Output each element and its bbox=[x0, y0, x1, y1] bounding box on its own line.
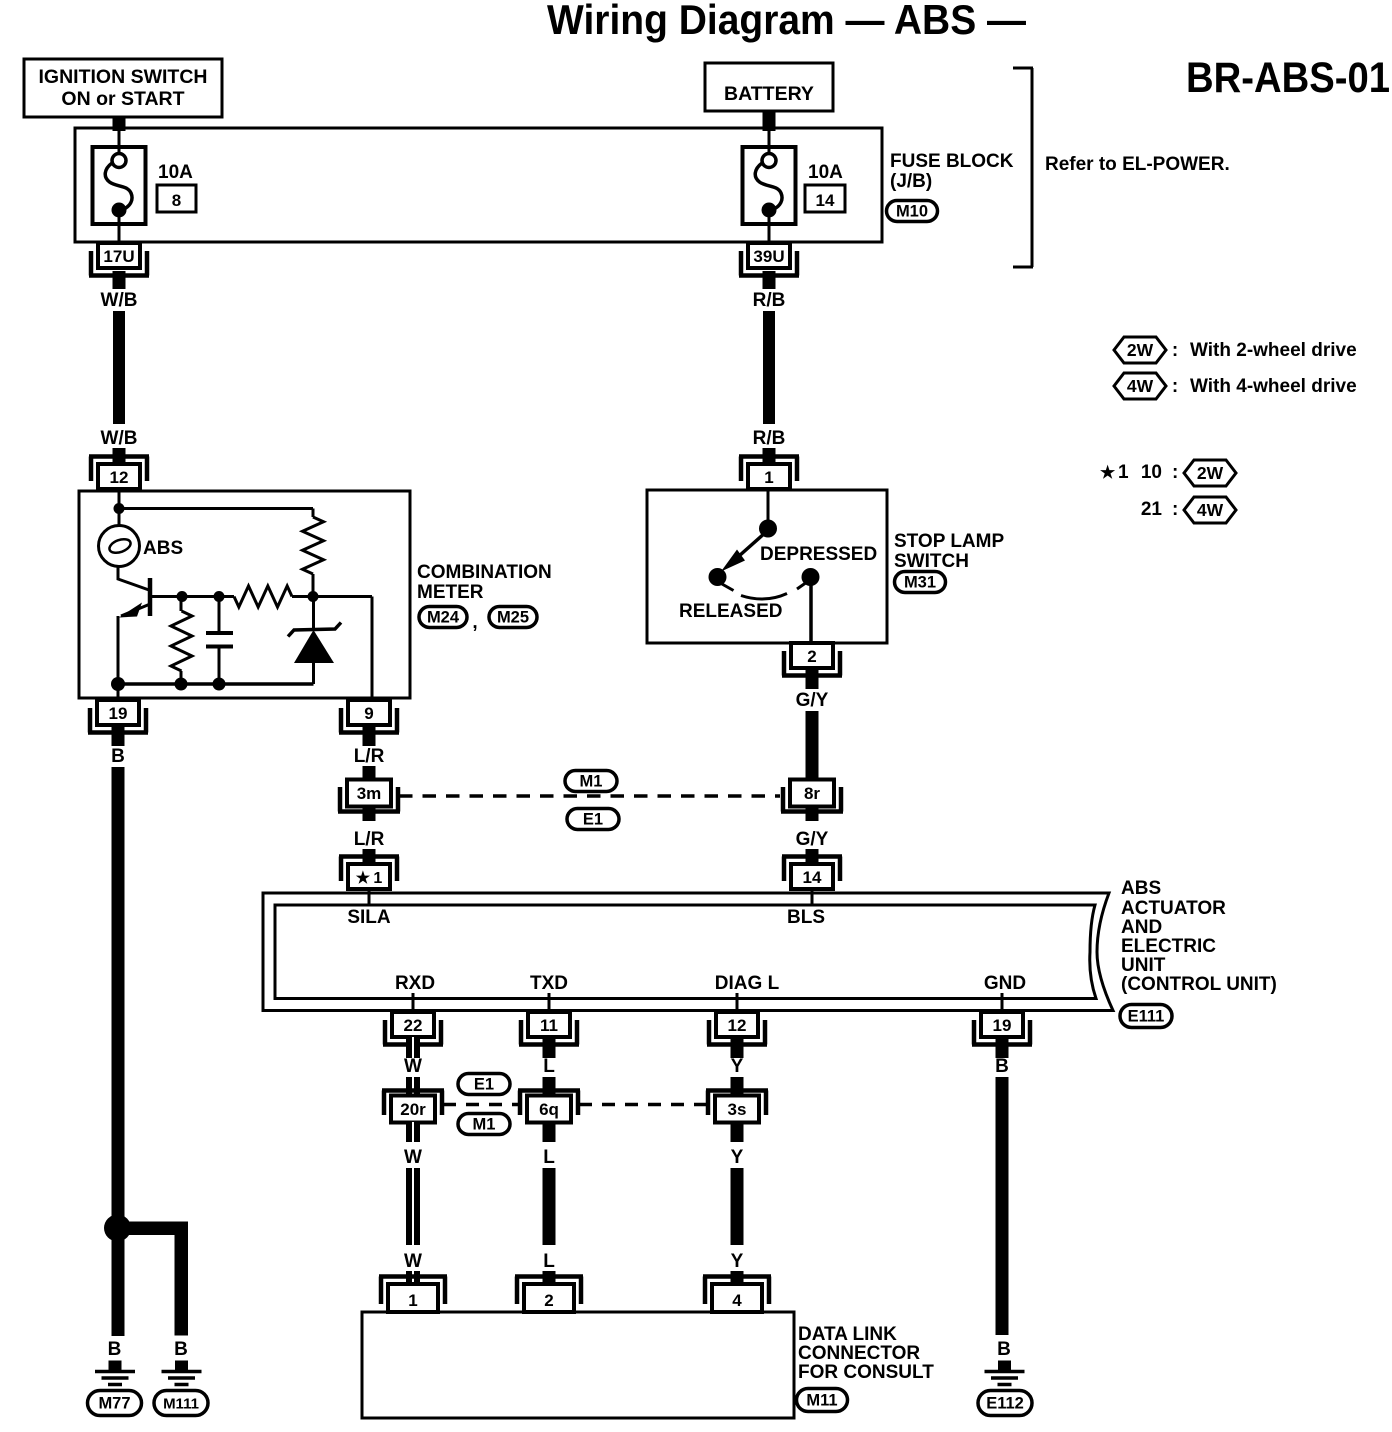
svg-text:METER: METER bbox=[417, 582, 484, 603]
connector 14 ABS unit bbox=[782, 857, 842, 890]
connector star1 ABS unit bbox=[339, 857, 399, 890]
svg-text:M1: M1 bbox=[580, 773, 603, 791]
connector 3s bbox=[706, 1091, 768, 1123]
connector 8r bbox=[781, 780, 843, 812]
connector pin 12 ABS unit bbox=[707, 1012, 767, 1045]
svg-text:3m: 3m bbox=[357, 784, 382, 803]
combination meter box bbox=[79, 491, 410, 698]
svg-text:Y: Y bbox=[731, 1147, 744, 1168]
svg-text:ELECTRIC: ELECTRIC bbox=[1121, 936, 1216, 957]
connector 3m bbox=[338, 780, 400, 812]
wire color labels row1 bbox=[404, 1056, 1009, 1077]
svg-text:B: B bbox=[995, 1056, 1009, 1077]
svg-text:M11: M11 bbox=[806, 1392, 837, 1410]
wire R/B label bbox=[753, 290, 786, 311]
legend 2W bbox=[1114, 337, 1357, 363]
svg-text:6q: 6q bbox=[539, 1100, 559, 1119]
stop lamp switch label bbox=[894, 531, 1004, 572]
svg-text::: : bbox=[1172, 499, 1178, 520]
svg-text:B: B bbox=[111, 746, 125, 767]
svg-text:W: W bbox=[404, 1056, 422, 1077]
svg-text:8: 8 bbox=[172, 191, 181, 210]
svg-text:M111: M111 bbox=[163, 1396, 199, 1413]
svg-text:L: L bbox=[543, 1147, 555, 1168]
svg-text:10: 10 bbox=[1141, 462, 1162, 483]
svg-text:1: 1 bbox=[1118, 462, 1129, 483]
svg-text:W: W bbox=[404, 1251, 422, 1272]
svg-text:ABS: ABS bbox=[143, 538, 183, 559]
zener diode D1 bbox=[288, 597, 341, 684]
wire stubs above inline connectors bbox=[406, 1077, 744, 1097]
meter bottom rail bbox=[111, 677, 314, 691]
ground M77 bbox=[95, 1361, 135, 1385]
svg-text:IGNITION SWITCH: IGNITION SWITCH bbox=[39, 66, 208, 88]
wire stubs below inline connectors bbox=[406, 1122, 744, 1142]
ABS actuator and electric unit box bbox=[263, 893, 1113, 1011]
svg-text:RXD: RXD bbox=[395, 973, 435, 994]
connector 6q bbox=[518, 1091, 580, 1123]
wire B label left ground bbox=[108, 1339, 122, 1360]
svg-text:4W: 4W bbox=[1127, 376, 1154, 396]
switch contacts bbox=[709, 490, 820, 643]
junction node B bbox=[104, 1215, 131, 1242]
meter internal wiring bbox=[114, 489, 314, 526]
data link connector box M11 bbox=[362, 1312, 794, 1418]
connector 12 combination meter bbox=[89, 457, 149, 490]
wire B label right ground bbox=[174, 1339, 188, 1360]
fuse 14 10A bbox=[743, 147, 796, 224]
svg-text:B: B bbox=[174, 1339, 188, 1360]
svg-text:COMBINATION: COMBINATION bbox=[417, 562, 552, 583]
svg-text:12: 12 bbox=[728, 1016, 747, 1035]
resistor R1 vertical bbox=[171, 597, 192, 684]
legend star1 pins bbox=[1100, 462, 1178, 483]
svg-text:★: ★ bbox=[1100, 463, 1116, 482]
svg-text:E112: E112 bbox=[986, 1395, 1024, 1413]
svg-text:11: 11 bbox=[540, 1016, 558, 1035]
wire fuse 14 to 39U bbox=[768, 212, 771, 243]
svg-text:B: B bbox=[108, 1339, 122, 1360]
pin wires bottom bbox=[413, 993, 1002, 1013]
svg-text:M31: M31 bbox=[904, 574, 936, 592]
harness dashed line E1 M1 lower bbox=[443, 1103, 707, 1107]
ignition switch box bbox=[24, 59, 222, 117]
svg-text:RELEASED: RELEASED bbox=[679, 601, 782, 622]
stop lamp switch box M31 bbox=[647, 490, 887, 643]
svg-text::: : bbox=[1172, 340, 1178, 361]
connector ref M11 bbox=[797, 1389, 848, 1412]
fuse block label bbox=[890, 151, 1014, 192]
svg-text:19: 19 bbox=[993, 1016, 1012, 1035]
wire L/R label 2 bbox=[354, 829, 385, 850]
svg-text::: : bbox=[1172, 462, 1178, 483]
page code BR-ABS-01 bbox=[1186, 54, 1390, 102]
connector ref M10 bbox=[887, 201, 938, 222]
svg-text:B: B bbox=[997, 1339, 1011, 1360]
fuse 8 label bbox=[157, 162, 196, 212]
wire G/Y label bbox=[796, 690, 829, 711]
svg-text:,: , bbox=[472, 612, 477, 633]
svg-text:★ 1: ★ 1 bbox=[356, 870, 383, 887]
wire fuse 8 to 17U bbox=[118, 212, 121, 243]
svg-text:2W: 2W bbox=[1127, 340, 1154, 360]
connector pin 19 ABS unit bbox=[972, 1012, 1032, 1045]
svg-text:1: 1 bbox=[764, 468, 773, 487]
svg-text:M10: M10 bbox=[896, 203, 928, 221]
wire G/Y run bbox=[806, 711, 819, 780]
svg-text:M77: M77 bbox=[98, 1395, 130, 1413]
svg-text:17U: 17U bbox=[103, 247, 134, 266]
connector pin 11 ABS unit bbox=[519, 1012, 579, 1045]
svg-text:8r: 8r bbox=[804, 784, 820, 803]
wire B branch bbox=[126, 1222, 188, 1336]
wire stubs below ABS pins bbox=[406, 1037, 1009, 1058]
svg-text:R/B: R/B bbox=[753, 428, 786, 449]
svg-text:4: 4 bbox=[732, 1291, 742, 1310]
svg-text:M25: M25 bbox=[497, 609, 529, 627]
svg-text:3s: 3s bbox=[728, 1100, 747, 1119]
pin labels bottom bbox=[395, 973, 1026, 994]
svg-text:10A: 10A bbox=[808, 162, 843, 183]
svg-text:G/Y: G/Y bbox=[796, 829, 829, 850]
ABS unit label bbox=[1121, 878, 1277, 995]
pin label SILA bbox=[347, 907, 391, 928]
ground ref M77 bbox=[88, 1391, 142, 1416]
svg-text:2: 2 bbox=[544, 1291, 553, 1310]
svg-text:9: 9 bbox=[364, 704, 373, 723]
connector 2 stop lamp switch bbox=[782, 643, 842, 676]
svg-text:FOR CONSULT: FOR CONSULT bbox=[798, 1362, 934, 1383]
svg-text:UNIT: UNIT bbox=[1121, 955, 1166, 976]
svg-text:ABS: ABS bbox=[1121, 878, 1161, 899]
fuse 8 10A bbox=[93, 147, 146, 224]
svg-text:Wiring Diagram — ABS —: Wiring Diagram — ABS — bbox=[547, 0, 1026, 43]
svg-text:21: 21 bbox=[1141, 499, 1163, 520]
switch position labels bbox=[679, 544, 877, 622]
svg-text:4W: 4W bbox=[1197, 500, 1224, 520]
svg-text:W/B: W/B bbox=[101, 290, 138, 311]
battery box bbox=[705, 63, 833, 111]
svg-text:20r: 20r bbox=[400, 1100, 426, 1119]
wire B label right bbox=[997, 1339, 1011, 1360]
fuse 14 label bbox=[805, 162, 845, 212]
wire W/B run bbox=[113, 311, 125, 424]
ABS warning lamp bbox=[99, 526, 140, 567]
svg-text:(J/B): (J/B) bbox=[890, 171, 932, 192]
wire B long run bbox=[112, 767, 125, 1336]
connector pin 2 DLC bbox=[515, 1277, 583, 1313]
svg-text:10A: 10A bbox=[158, 162, 193, 183]
svg-text:M24: M24 bbox=[427, 609, 460, 627]
wire Y run bbox=[731, 1168, 744, 1245]
svg-text::: : bbox=[1172, 376, 1178, 397]
wire B run right bbox=[996, 1077, 1009, 1335]
fuse block box M10 bbox=[75, 128, 882, 242]
connector ref M1 lower bbox=[458, 1114, 510, 1135]
svg-text:G/Y: G/Y bbox=[796, 690, 829, 711]
svg-text:39U: 39U bbox=[753, 247, 784, 266]
connector ref E1 lower bbox=[458, 1074, 510, 1095]
svg-text:14: 14 bbox=[816, 191, 835, 210]
svg-text:DEPRESSED: DEPRESSED bbox=[760, 544, 877, 565]
connector 20r bbox=[382, 1091, 444, 1123]
svg-text:19: 19 bbox=[109, 704, 128, 723]
harness dashed line M1 E1 bbox=[399, 794, 780, 798]
svg-text:E1: E1 bbox=[474, 1076, 494, 1094]
wire B label bbox=[111, 746, 125, 767]
svg-text:STOP LAMP: STOP LAMP bbox=[894, 531, 1004, 552]
connector pin 9 meter bbox=[339, 700, 399, 733]
transistor Q1 bbox=[118, 566, 182, 698]
svg-text:ACTUATOR: ACTUATOR bbox=[1121, 898, 1226, 919]
svg-text:SWITCH: SWITCH bbox=[894, 551, 969, 572]
svg-text:E1: E1 bbox=[583, 811, 603, 829]
svg-text:SILA: SILA bbox=[347, 907, 391, 928]
svg-text:1: 1 bbox=[408, 1291, 417, 1310]
title bbox=[547, 0, 1026, 43]
svg-text:W: W bbox=[404, 1147, 422, 1168]
svg-text:BR-ABS-01: BR-ABS-01 bbox=[1186, 54, 1390, 102]
lamp label ABS bbox=[143, 538, 183, 559]
wire L run bbox=[543, 1168, 556, 1245]
wire battery to fuse block bbox=[763, 110, 776, 154]
resistor R3 vertical right bbox=[303, 517, 324, 597]
data link connector label bbox=[798, 1324, 934, 1383]
ground M111 bbox=[162, 1361, 202, 1385]
connector pin 1 DLC bbox=[379, 1277, 447, 1313]
connector ref M1 upper bbox=[565, 771, 617, 792]
refer bracket bbox=[1013, 68, 1033, 267]
svg-text:FUSE BLOCK: FUSE BLOCK bbox=[890, 151, 1014, 172]
wire color labels row2 bbox=[404, 1147, 744, 1168]
svg-text:With 2-wheel drive: With 2-wheel drive bbox=[1190, 340, 1357, 361]
legend 4W bbox=[1114, 373, 1357, 399]
svg-text:L: L bbox=[543, 1251, 555, 1272]
wire stubs above DLC pins bbox=[406, 1271, 744, 1285]
capacitor C1 bbox=[206, 597, 233, 684]
svg-text:DIAG L: DIAG L bbox=[715, 973, 780, 994]
ground ref E112 bbox=[978, 1391, 1032, 1416]
wire color labels row3 bbox=[404, 1251, 744, 1272]
connector refs M24 M25 bbox=[419, 607, 537, 634]
pin label BLS bbox=[787, 907, 825, 928]
svg-text:2W: 2W bbox=[1197, 463, 1224, 483]
connector 39U bbox=[739, 243, 799, 276]
svg-text:BATTERY: BATTERY bbox=[724, 83, 814, 105]
svg-text:BLS: BLS bbox=[787, 907, 825, 928]
svg-text:AND: AND bbox=[1121, 917, 1162, 938]
svg-text:L/R: L/R bbox=[354, 746, 385, 767]
connector ref M31 bbox=[895, 572, 946, 593]
svg-text:TXD: TXD bbox=[530, 973, 568, 994]
connector ref E1 upper bbox=[567, 809, 619, 830]
base rail and nodes bbox=[177, 591, 235, 602]
wire W run bbox=[406, 1168, 420, 1245]
svg-text:L/R: L/R bbox=[354, 829, 385, 850]
wire R/B label 2 bbox=[753, 428, 786, 449]
connector pin 19 meter bbox=[88, 700, 148, 733]
ground E112 bbox=[985, 1361, 1025, 1385]
wire L/R label bbox=[354, 746, 385, 767]
refer to EL-POWER note bbox=[1045, 154, 1230, 175]
svg-text:22: 22 bbox=[404, 1016, 423, 1035]
svg-text:L: L bbox=[543, 1056, 555, 1077]
svg-text:2: 2 bbox=[807, 647, 816, 666]
svg-text:Y: Y bbox=[731, 1251, 744, 1272]
svg-text:With 4-wheel drive: With 4-wheel drive bbox=[1190, 376, 1357, 397]
svg-text:W/B: W/B bbox=[101, 428, 138, 449]
svg-text:E111: E111 bbox=[1128, 1008, 1165, 1026]
wire G/Y label 2 bbox=[796, 829, 829, 850]
svg-text:R/B: R/B bbox=[753, 290, 786, 311]
wire node to pin 9 bbox=[313, 597, 372, 699]
connector pin 22 ABS unit bbox=[383, 1012, 443, 1045]
ground ref M111 bbox=[154, 1391, 208, 1416]
connector 17U bbox=[89, 243, 149, 276]
svg-text:12: 12 bbox=[110, 468, 129, 487]
svg-text:Y: Y bbox=[731, 1056, 744, 1077]
svg-text:14: 14 bbox=[803, 868, 822, 887]
svg-text:DATA LINK: DATA LINK bbox=[798, 1324, 897, 1345]
svg-text:(CONTROL UNIT): (CONTROL UNIT) bbox=[1121, 974, 1277, 995]
wire ignition to fuse block bbox=[113, 116, 126, 154]
svg-text:GND: GND bbox=[984, 973, 1026, 994]
connector 1 stop lamp switch bbox=[739, 457, 799, 490]
connector pin 4 DLC bbox=[703, 1277, 771, 1313]
meter label bbox=[417, 562, 552, 603]
connector ref E111 bbox=[1120, 1005, 1172, 1028]
svg-text:Refer to EL-POWER.: Refer to EL-POWER. bbox=[1045, 154, 1230, 175]
svg-text:ON or START: ON or START bbox=[61, 88, 184, 110]
svg-text:CONNECTOR: CONNECTOR bbox=[798, 1343, 920, 1364]
wire W/B label 2 bbox=[101, 428, 138, 449]
svg-text:M1: M1 bbox=[473, 1116, 496, 1134]
wire W/B label bbox=[101, 290, 138, 311]
resistor R2 horizontal bbox=[234, 586, 319, 607]
wire R/B run bbox=[763, 311, 775, 424]
